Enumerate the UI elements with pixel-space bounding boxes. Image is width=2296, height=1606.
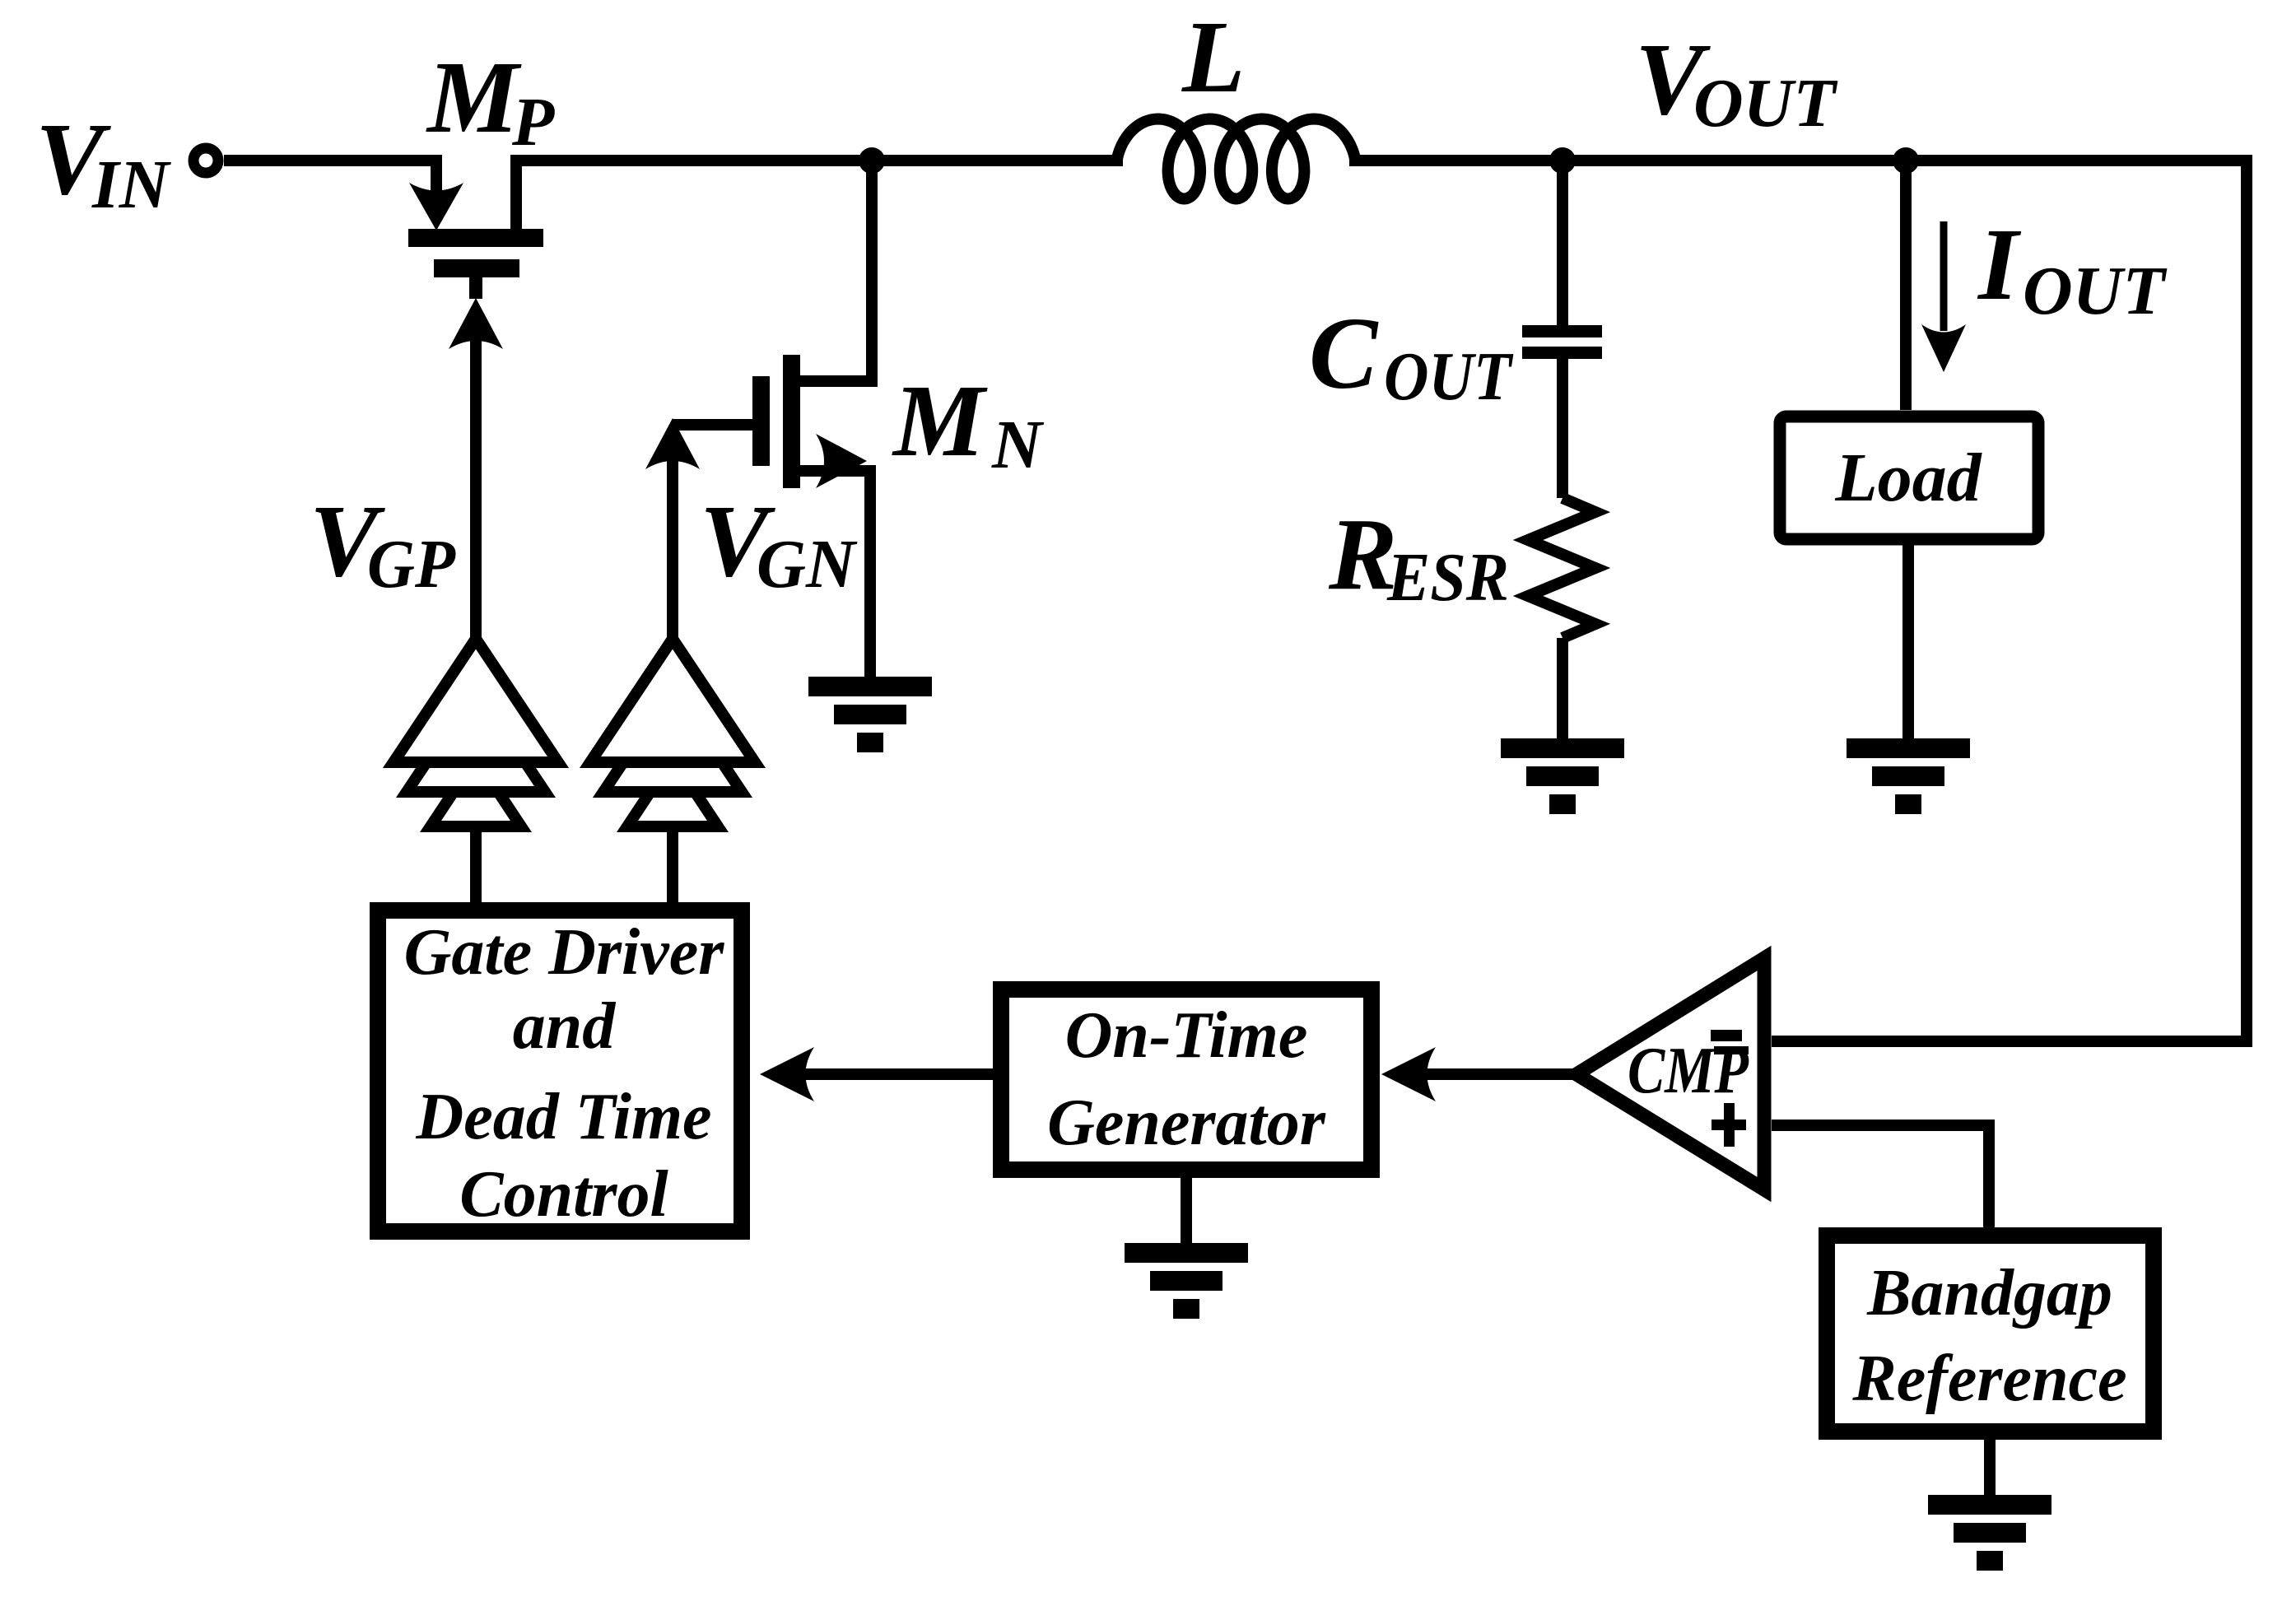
ground under Load: [1847, 738, 1970, 758]
resistor R_ESR: [1528, 498, 1595, 638]
node C_OUT junction dot: [1549, 147, 1576, 174]
wire bandgap to ground: [1984, 1440, 1996, 1495]
I_OUT current arrow line: [1940, 221, 1948, 331]
wire buffer1 to gate driver box: [470, 826, 482, 902]
buffer V_GN stage 1: [590, 639, 755, 762]
wire Load to ground: [1902, 545, 1914, 738]
svg-text:P: P: [511, 84, 555, 161]
CMP output overline: [1714, 1046, 1749, 1054]
svg-text:GN: GN: [757, 526, 858, 603]
load box: [1780, 417, 2038, 539]
svg-text:Reference: Reference: [1851, 1343, 2126, 1415]
wire switch node to M_N drain: [800, 161, 872, 381]
arrow into gate driver box: [760, 1047, 814, 1101]
ground under R_ESR: [1501, 738, 1624, 758]
svg-text:GP: GP: [367, 526, 456, 603]
wire M_P drain to inductor: [516, 161, 1123, 229]
wire V_OUT to feedback down to CMP minus: [1349, 161, 2247, 1041]
arrow V_GN into M_N gate: [645, 418, 700, 469]
wire C_OUT to R_ESR: [1557, 359, 1568, 498]
gate driver and dead time control box: [378, 910, 742, 1231]
svg-text:Generator: Generator: [1047, 1087, 1326, 1159]
wire V_OUT node to Load: [1900, 161, 1912, 410]
wire R_ESR to ground: [1557, 638, 1568, 738]
svg-text:I: I: [1977, 208, 2022, 322]
CMP minus input sign: [1711, 1030, 1742, 1041]
ground under bandgap reference: [1928, 1495, 2051, 1515]
CMP plus input sign: [1712, 1120, 1746, 1130]
svg-text:Gate Driver: Gate Driver: [404, 916, 725, 989]
svg-text:CMP: CMP: [1628, 1033, 1749, 1107]
capacitor C_OUT top plate: [1522, 325, 1602, 337]
buffer V_GP stage 1: [394, 639, 558, 762]
wire V_IN to M_P source: [224, 161, 436, 191]
svg-text:On-Time: On-Time: [1065, 999, 1308, 1072]
wire CMP output to on-time generator: [1421, 1068, 1576, 1080]
node switch junction dot: [859, 147, 885, 174]
transistor M_P channel bar: [408, 229, 543, 247]
svg-text:Load: Load: [1834, 440, 1982, 516]
buffer V_GN stage 2: [603, 688, 742, 792]
ground under M_N: [808, 677, 932, 696]
svg-text:OUT: OUT: [2023, 253, 2168, 329]
wire V_GN to M_N gate: [673, 419, 752, 431]
buffer V_GP stage 2: [407, 688, 545, 792]
transistor M_N gate bar: [752, 376, 770, 466]
wire M_N source to ground: [800, 471, 870, 677]
arrow into on-time generator box: [1381, 1047, 1436, 1101]
buffer V_GN stage 3: [627, 758, 718, 826]
wire V_GP buffer to M_P gate: [470, 336, 482, 639]
arrow V_GP into M_P gate: [449, 298, 503, 349]
transistor M_N channel bar: [783, 355, 800, 488]
wire buffer2 to gate driver box: [667, 826, 678, 902]
svg-text:and: and: [513, 990, 616, 1063]
node Load junction dot: [1893, 147, 1919, 174]
wire on-time generator to gate driver: [799, 1068, 993, 1080]
svg-text:N: N: [991, 407, 1045, 483]
svg-text:Bandgap: Bandgap: [1866, 1257, 2112, 1329]
capacitor C_OUT bottom plate: [1522, 347, 1602, 359]
transistor M_P gate stub: [469, 277, 482, 299]
wire on-time generator to ground: [1181, 1178, 1192, 1243]
ground under on-time generator: [1125, 1243, 1248, 1263]
transistor M_P gate bar: [434, 259, 519, 277]
transistor M_P source arrow: [409, 183, 463, 230]
wire V_GN buffer vertical: [667, 454, 678, 639]
on-time generator box: [1001, 989, 1372, 1170]
I_OUT arrowhead: [1921, 324, 1966, 372]
svg-text:M: M: [426, 41, 522, 155]
svg-text:C: C: [1309, 297, 1379, 411]
svg-text:M: M: [892, 365, 988, 478]
inductor L: [1117, 119, 1355, 199]
svg-text:IN: IN: [91, 147, 172, 223]
svg-text:Control: Control: [459, 1158, 668, 1231]
comparator CMP: [1576, 958, 1764, 1189]
transistor M_N source arrow: [816, 434, 867, 488]
wire V_OUT node to C_OUT: [1557, 161, 1568, 325]
bandgap reference box: [1827, 1236, 2154, 1431]
svg-text:Dead Time: Dead Time: [415, 1081, 711, 1153]
svg-text:OUT: OUT: [1384, 338, 1514, 415]
buffer V_GP stage 3: [431, 758, 521, 826]
terminal V_IN: [193, 148, 218, 173]
svg-text:L: L: [1181, 1, 1245, 114]
svg-text:ESR: ESR: [1386, 539, 1509, 616]
wire CMP plus input to bandgap: [1772, 1125, 1989, 1227]
svg-text:OUT: OUT: [1693, 65, 1838, 142]
